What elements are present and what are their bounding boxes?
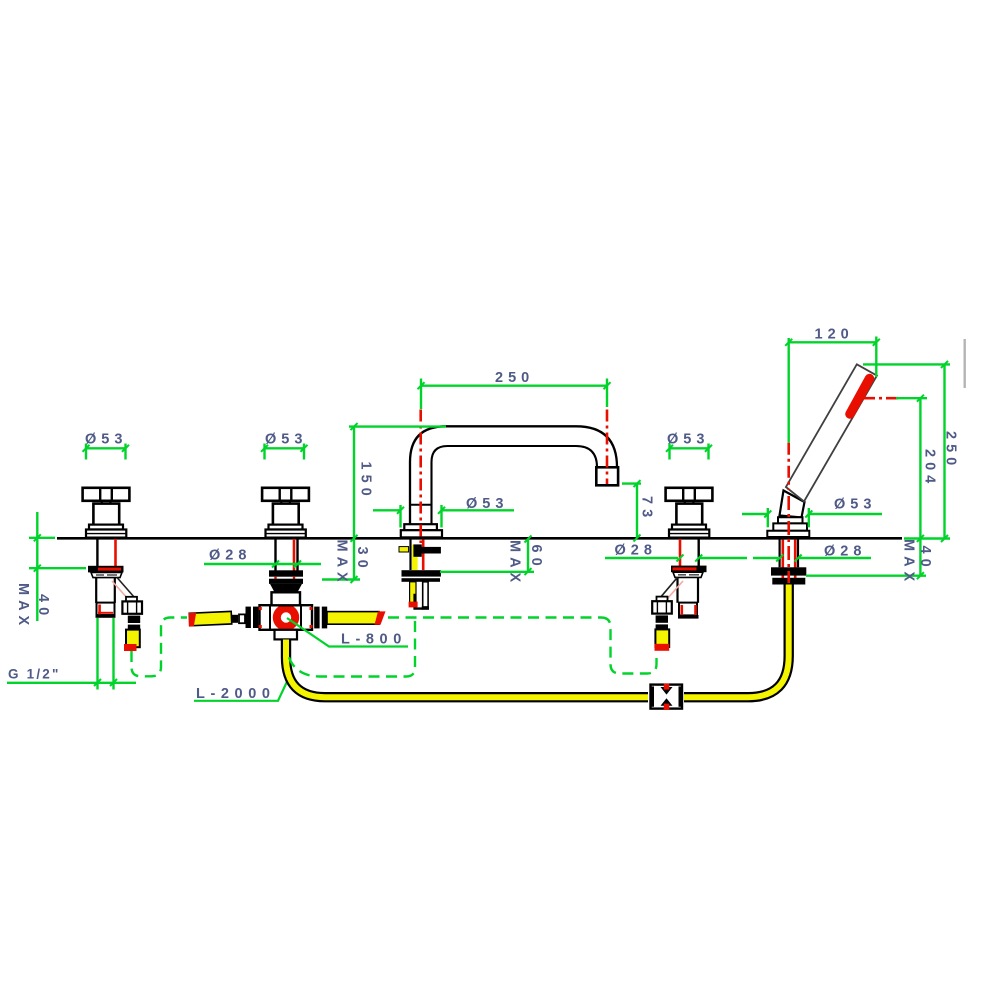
dimension Ø53 valve V2 bbox=[261, 432, 308, 460]
spout centerline left bbox=[419, 410, 422, 544]
svg-text:Ø53: Ø53 bbox=[466, 496, 508, 512]
tee red ring bbox=[277, 608, 295, 626]
valve V3 angled outlet bbox=[652, 577, 683, 651]
dashed hose route right corner bbox=[601, 618, 657, 674]
svg-text:250: 250 bbox=[495, 370, 534, 386]
valve V1 angled outlet bbox=[112, 578, 142, 652]
valve V2 shank below deck bbox=[276, 539, 298, 571]
dimension Ø53 hand shower bbox=[742, 497, 882, 528]
dimension G 1/2 bbox=[7, 618, 136, 690]
valve V3 body below nut bbox=[678, 577, 699, 618]
svg-text:Ø53: Ø53 bbox=[85, 432, 127, 448]
svg-text:40: 40 bbox=[35, 594, 51, 620]
hand shower wand bbox=[786, 364, 877, 501]
dimension MAX 40 left bbox=[15, 512, 86, 630]
svg-text:250: 250 bbox=[943, 431, 959, 470]
hose L-2000 bbox=[286, 640, 648, 698]
tee bottom outlet bbox=[275, 630, 298, 640]
svg-text:Ø28: Ø28 bbox=[209, 548, 251, 564]
svg-text:L-2000: L-2000 bbox=[196, 686, 276, 702]
svg-text:60: 60 bbox=[528, 545, 544, 571]
svg-text:150: 150 bbox=[358, 462, 374, 501]
svg-text:Ø53: Ø53 bbox=[834, 497, 876, 513]
svg-text:73: 73 bbox=[639, 496, 655, 522]
spout nozzle bbox=[596, 467, 618, 485]
gray artifact line top right bbox=[964, 339, 966, 388]
hose L-800 left segment bbox=[188, 611, 245, 626]
svg-text:Ø53: Ø53 bbox=[265, 432, 307, 448]
dimension 30 MAX spout bbox=[322, 540, 370, 587]
svg-text:MAX: MAX bbox=[507, 540, 523, 587]
svg-text:Ø53: Ø53 bbox=[667, 432, 709, 448]
dimension Ø28 valve V3 bbox=[605, 543, 747, 562]
spout flange bbox=[401, 524, 442, 537]
svg-text:Ø28: Ø28 bbox=[615, 543, 657, 559]
hand shower shank below deck bbox=[771, 540, 806, 585]
wand grip reference centerline bbox=[863, 397, 902, 400]
dimension Ø28 hand shower bbox=[753, 544, 871, 562]
dimension Ø53 valve V1 bbox=[83, 432, 130, 460]
svg-text:G 1/2": G 1/2" bbox=[8, 667, 61, 682]
hand shower centerline bbox=[788, 338, 790, 583]
dimension MAX 40 hand shower bbox=[806, 539, 933, 586]
svg-text:120: 120 bbox=[815, 327, 854, 343]
valve V2 handle bbox=[262, 488, 309, 538]
valve V1 locking nut bbox=[88, 566, 124, 578]
dimension Ø53 spout bbox=[373, 496, 514, 528]
valve V3 locking nut bbox=[671, 566, 707, 578]
hose hand shower bbox=[684, 584, 789, 697]
dimension Ø53 valve V3 bbox=[666, 432, 712, 460]
dashed hose route left bbox=[132, 618, 188, 677]
dimension 250 spout bbox=[418, 370, 611, 409]
deck reference line right bbox=[904, 537, 950, 539]
svg-text:MAX: MAX bbox=[334, 540, 350, 587]
dimension 120 bbox=[785, 327, 880, 378]
spout below-deck assembly bbox=[399, 540, 441, 610]
svg-text:40: 40 bbox=[917, 546, 933, 572]
spout centerline right bbox=[606, 410, 609, 485]
svg-text:204: 204 bbox=[922, 449, 938, 488]
svg-text:30: 30 bbox=[354, 547, 370, 573]
hand shower base cone bbox=[767, 491, 809, 538]
valve V1 shank below deck bbox=[97, 539, 115, 567]
valve V1 body below nut bbox=[96, 578, 116, 618]
tee diverter body bbox=[246, 605, 328, 630]
valve V2 locking nuts bbox=[269, 570, 303, 605]
svg-text:MAX: MAX bbox=[901, 539, 917, 586]
hose L-800 right segment bbox=[327, 611, 386, 624]
valve V3 handle bbox=[666, 488, 713, 538]
svg-text:MAX: MAX bbox=[15, 583, 31, 630]
svg-text:L-800: L-800 bbox=[341, 632, 407, 648]
dimension 204 bbox=[896, 395, 938, 576]
deck line bbox=[57, 537, 902, 540]
valve V3 shank below deck bbox=[680, 539, 699, 566]
spout tube bbox=[410, 426, 617, 524]
dimension 60 MAX spout bbox=[440, 536, 544, 588]
dashed drop from spout bbox=[289, 621, 416, 677]
dimension Ø28 valve V2 bbox=[204, 548, 321, 568]
hose connector union bbox=[650, 684, 683, 710]
dimension 250 right bbox=[863, 361, 959, 542]
label L-2000 bbox=[194, 680, 288, 702]
label L-800 bbox=[287, 618, 408, 648]
valve V1 handle bbox=[83, 488, 130, 538]
dimension 73 bbox=[622, 480, 655, 541]
dimension 150 spout bbox=[349, 423, 446, 579]
dashed hose route middle bbox=[388, 616, 601, 618]
